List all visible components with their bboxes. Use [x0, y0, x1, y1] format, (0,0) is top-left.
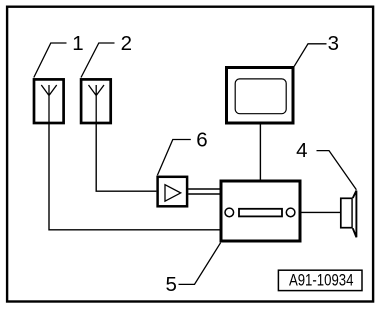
antenna box 1	[34, 79, 64, 123]
svg-text:5: 5	[165, 273, 176, 296]
antenna symbol 1	[41, 85, 56, 123]
wire amplifier6 to unit5 (double line)	[188, 189, 220, 194]
control unit 5 box	[221, 181, 300, 241]
speaker 4 cone	[353, 191, 357, 238]
display unit 3 outer box	[227, 68, 294, 124]
svg-text:A91-10934: A91-10934	[289, 272, 354, 290]
display unit 3 screen	[235, 79, 286, 114]
svg-text:1: 1	[72, 32, 83, 55]
wire antenna2 to amplifier6	[96, 124, 156, 191]
svg-text:3: 3	[328, 32, 339, 55]
label 5 leader	[179, 243, 221, 285]
unit5 slot	[239, 209, 282, 217]
wire antenna1 to unit5	[49, 124, 220, 230]
figure number box	[278, 270, 362, 290]
unit5 left knob	[225, 208, 234, 217]
unit5 right knob	[286, 208, 295, 217]
amplifier U6 box	[158, 177, 188, 207]
label 1 leader	[34, 43, 67, 78]
svg-text:4: 4	[296, 139, 307, 162]
label 6 leader	[157, 140, 190, 176]
amplifier triangle	[165, 185, 181, 202]
label 4 leader	[317, 151, 357, 190]
wire unit5 to speaker4	[302, 211, 341, 213]
antenna symbol 2	[89, 85, 105, 123]
label 3 leader	[294, 44, 326, 67]
svg-text:6: 6	[196, 129, 207, 152]
wire display3 to unit5	[259, 125, 261, 181]
label 2 leader	[81, 43, 115, 78]
svg-text:2: 2	[121, 32, 132, 55]
antenna box 2	[81, 79, 111, 123]
speaker 4 magnet	[341, 198, 352, 227]
